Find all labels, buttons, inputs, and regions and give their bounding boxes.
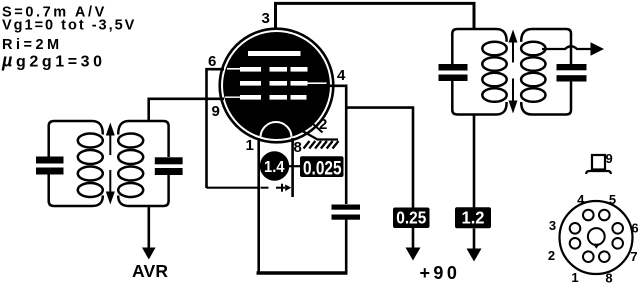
capacitor C4 plates [557, 64, 587, 82]
AVR arrowhead [142, 248, 156, 260]
bottom ground rail wire [257, 271, 348, 274]
svg-text:8: 8 [294, 139, 302, 156]
capacitor C1 plates [36, 157, 64, 175]
socket pin holes [570, 210, 623, 262]
svg-text:4: 4 [577, 192, 585, 207]
svg-text:1.2: 1.2 [462, 207, 485, 227]
svg-text:5: 5 [609, 192, 616, 207]
anode plate bar [248, 51, 301, 56]
wire pin3 to HT rail [276, 3, 475, 29]
svg-text:8: 8 [605, 271, 612, 285]
capacitor C5 screen bypass 0.025 line to rail [345, 220, 348, 274]
socket center spigot [588, 228, 605, 249]
arrow to +90 from 1.2 [467, 249, 482, 262]
T2 primary winding L3 [452, 29, 506, 115]
top cap symbol [586, 155, 611, 174]
svg-text:+90: +90 [420, 263, 461, 283]
wire pin4 screen feed [327, 86, 346, 204]
filament battery 1.4V disc [260, 151, 289, 180]
T2 coupling arrows [509, 30, 518, 114]
grid row 3 (g3) dashes [225, 95, 307, 100]
svg-text:9: 9 [606, 151, 613, 166]
T1 secondary winding L2 [118, 121, 168, 206]
capacitor C5 plates [332, 205, 361, 220]
svg-text:3: 3 [262, 10, 270, 27]
wire pin8 / filament right lead [291, 138, 294, 197]
svg-text:Vg1=0 tot -3,5V: Vg1=0 tot -3,5V [2, 18, 136, 34]
output arrow wire [542, 42, 604, 55]
capacitor box 0.025 [300, 156, 344, 179]
svg-text:0.025: 0.025 [303, 158, 342, 179]
svg-text:6: 6 [631, 221, 638, 236]
wire heater minus link [207, 187, 259, 189]
svg-text:1: 1 [571, 270, 578, 285]
T2 secondary winding L4 [521, 29, 571, 115]
tube V1 envelope outline [220, 29, 334, 143]
filament battery polarity marks - arrow + [261, 184, 292, 192]
wire below 0.25 [412, 228, 415, 249]
svg-text:3: 3 [549, 218, 556, 233]
grid row 1 (g1) dashes [227, 67, 308, 72]
svg-text:9: 9 [212, 103, 220, 120]
wire pin9 to T1 [149, 99, 224, 122]
T1 primary winding L1 [49, 121, 103, 206]
socket pin numbers [548, 192, 639, 285]
svg-text:2: 2 [548, 248, 555, 263]
svg-text:6: 6 [208, 53, 216, 70]
T1 coupling arrows [106, 123, 115, 205]
socket base outline [560, 201, 633, 274]
svg-text:0.25: 0.25 [396, 207, 426, 227]
wire below 1.2 [473, 228, 476, 250]
cathode filament circle [261, 122, 292, 153]
AVR output wire [148, 207, 151, 250]
svg-text:µg2g1=30: µg2g1=30 [1, 51, 106, 71]
capacitor C2 plates [155, 157, 183, 175]
svg-text:2: 2 [319, 116, 327, 133]
wire screen to resistor 0.25 [346, 108, 413, 208]
resistor box 1.2 [455, 207, 491, 228]
svg-text:1: 1 [246, 137, 254, 154]
resistor box 0.25 [393, 207, 430, 228]
pin2 arrow to envelope [308, 119, 323, 132]
wire 1.4 to 0.025 [289, 165, 301, 167]
wire anode to resistor 1.2 [473, 116, 476, 208]
wire pin1 / filament left lead [257, 138, 260, 273]
tube V1 envelope black disc [223, 32, 330, 139]
svg-text:1.4: 1.4 [264, 159, 285, 176]
wire pin6 [207, 69, 225, 188]
svg-text:4: 4 [337, 67, 346, 84]
grid row 2 (g2) dashes [240, 81, 327, 86]
chassis connection pin8 [298, 129, 339, 149]
svg-text:AVR: AVR [132, 261, 168, 281]
svg-text:7: 7 [630, 249, 637, 264]
capacitor C3 plates [439, 64, 468, 81]
arrow to +90 from 0.25 [406, 248, 421, 261]
